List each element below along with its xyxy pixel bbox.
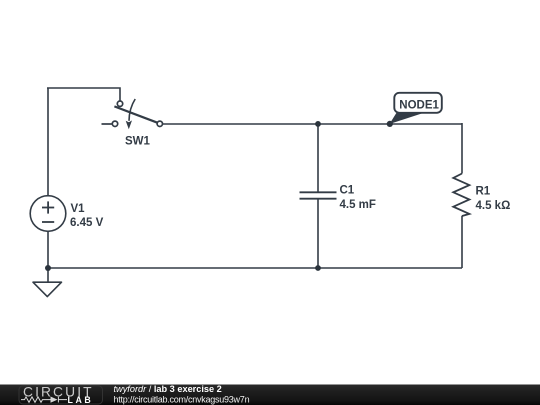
voltage source V1 (30, 196, 66, 232)
switch SW1 (102, 99, 163, 129)
ground (33, 282, 62, 296)
junction C1 bottom (315, 265, 321, 271)
wire V1 bottom to ground node (47, 232, 49, 283)
svg-text:R1: R1 (476, 186, 491, 198)
svg-text:6.45 V: 6.45 V (70, 217, 104, 229)
svg-text:V1: V1 (71, 203, 86, 215)
node NODE1 flag pointer (390, 113, 425, 124)
switch pole terminal (117, 101, 122, 106)
wire top-left vertical (V1 top to corner) (47, 88, 49, 196)
node NODE1 bubble (394, 93, 442, 113)
wire C1 top stub (317, 124, 319, 192)
node NODE1 junction dot (387, 121, 393, 127)
wire R1 bottom to bottom-right corner (461, 216, 463, 268)
svg-text:4.5 kΩ: 4.5 kΩ (476, 200, 511, 212)
wire right vertical (corner down to R1 top) (461, 123, 463, 174)
svg-text:LAB: LAB (68, 395, 94, 405)
switch throw terminal (open, left) with stub (102, 123, 112, 125)
wire C1 bottom stub (317, 199, 319, 268)
wire top-left horizontal (corner to switch pole) (47, 88, 120, 101)
switch blade (114, 106, 157, 122)
svg-text:SW1: SW1 (125, 136, 151, 148)
wire switch output to top-right corner (163, 123, 462, 125)
svg-text:C1: C1 (340, 185, 355, 197)
svg-text:http://circuitlab.com/cnvkagsu: http://circuitlab.com/cnvkagsu93w7n (114, 395, 250, 405)
CircuitLab logo panel (19, 386, 103, 404)
switch throw terminal (closed, right) (157, 121, 162, 126)
wire bottom horizontal (48, 267, 462, 269)
junction C1 top (315, 121, 321, 127)
svg-text:NODE1: NODE1 (399, 99, 439, 111)
resistor R1 (453, 174, 469, 217)
switch actuation arrow (129, 99, 135, 121)
junction ground node (45, 265, 51, 271)
footer bar (0, 385, 540, 405)
svg-text:4.5 mF: 4.5 mF (340, 199, 376, 211)
svg-text:twyfordr / lab 3 exercise 2: twyfordr / lab 3 exercise 2 (114, 384, 222, 394)
capacitor C1 (300, 192, 337, 198)
CircuitLab logo resistor-diode glyph (21, 397, 67, 403)
